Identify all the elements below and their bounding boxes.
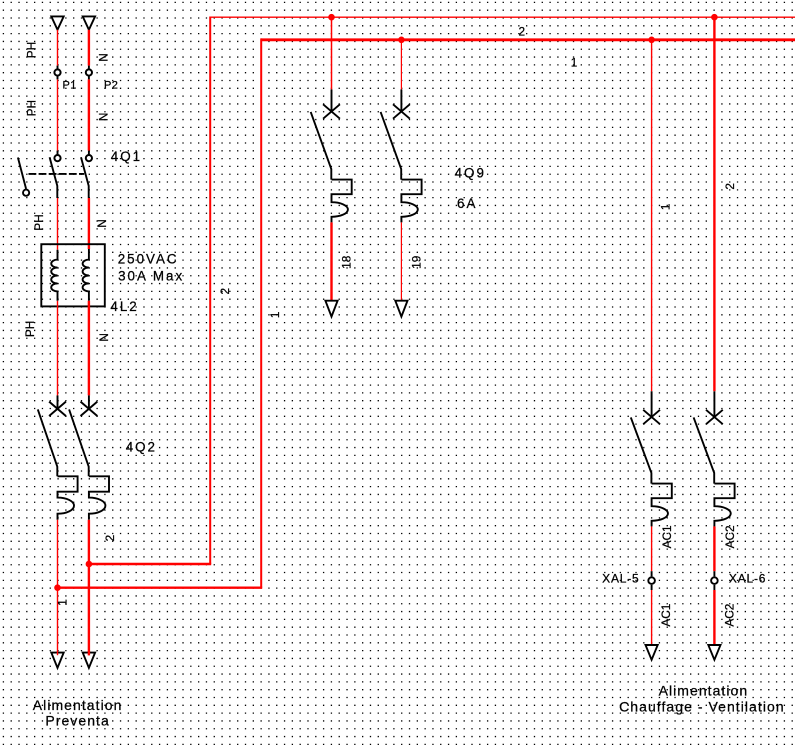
- svg-text:N: N: [97, 333, 111, 342]
- 4Q2 pole 1 thermal element: [58, 476, 78, 520]
- breaker pole 2 X contact: [706, 410, 723, 424]
- svg-text:AC1: AC1: [659, 604, 673, 627]
- breaker pole 2 top stub: [713, 391, 715, 417]
- 4Q1 pole 2 contact circle: [86, 155, 92, 161]
- svg-text:PH: PH: [23, 321, 37, 337]
- breaker pole 1 top stub: [651, 391, 653, 417]
- wire AC2 lower: [713, 590, 715, 645]
- svg-text:4Q9: 4Q9: [455, 166, 486, 181]
- junction 4Q9 pole 1 on bus 2: [328, 14, 335, 21]
- svg-text:Preventa: Preventa: [45, 713, 109, 729]
- svg-text:N: N: [97, 113, 111, 122]
- wire 4Q9 pole 1 input: [331, 17, 333, 89]
- wire net 2 left vertical drop: [209, 17, 211, 565]
- terminal arrow top N: [83, 16, 95, 29]
- 4Q1 pole 2 stub: [88, 151, 90, 156]
- wire 4Q2 pole 2 output: [88, 520, 90, 564]
- 4Q1 pole 2 blade: [81, 157, 89, 198]
- 4Q9 pole 2 thermal element: [401, 180, 421, 223]
- terminal XAL-6: [713, 571, 715, 576]
- svg-text:4Q2: 4Q2: [126, 440, 157, 455]
- 4Q9 pole 1 thermal element: [332, 180, 352, 223]
- 4Q2 pole 1 blade: [38, 409, 58, 476]
- 4Q9 pole 2 top stub: [400, 89, 402, 111]
- terminal arrow wire 18: [325, 301, 337, 317]
- svg-text:1: 1: [658, 204, 672, 211]
- svg-text:PH: PH: [32, 214, 46, 230]
- breaker pole 1 thermal element: [652, 484, 672, 527]
- junction AC breaker pole 1 on bus 1: [648, 37, 655, 44]
- svg-text:Chauffage - Ventilation: Chauffage - Ventilation: [619, 699, 785, 715]
- svg-text:4L2: 4L2: [110, 299, 138, 314]
- 4Q2 pole 2 top stub: [88, 395, 90, 408]
- wire PH upper: [57, 30, 59, 66]
- 4Q1 pole 1 stub: [57, 151, 59, 156]
- wire PH to transformer: [57, 198, 59, 250]
- 4L2 secondary winding: [83, 249, 89, 301]
- svg-text:1: 1: [571, 56, 578, 70]
- wire PH overshoot into arrow: [57, 651, 59, 655]
- wire AC2 upper: [713, 526, 715, 571]
- 4Q2 pole 1 X contact: [49, 402, 66, 416]
- 4Q1 linkage dashed line: [29, 173, 85, 175]
- transformer 4L2: [41, 244, 184, 314]
- wire N below transformer: [88, 301, 90, 396]
- wire 4Q2 pole 1 output: [57, 520, 59, 652]
- wire PH middle: [57, 79, 59, 150]
- breaker pole 2 blade: [694, 417, 715, 483]
- breaker pole 2 thermal element: [714, 484, 734, 527]
- svg-text:P2: P2: [104, 79, 118, 91]
- 4Q2 pole 2 X contact: [81, 402, 98, 416]
- circuit breaker chauffage pole 2: [694, 391, 735, 526]
- wire net 2 to AC breaker: [713, 17, 715, 391]
- terminal arrow top PH: [51, 16, 63, 29]
- junction AC breaker pole 2 on bus 2: [711, 14, 718, 21]
- wire net 1 left vertical drop: [260, 38, 262, 587]
- wire AC1 lower: [651, 590, 653, 645]
- 4Q1 pole 1 blade: [50, 157, 58, 198]
- terminal XAL-5: [651, 571, 653, 576]
- terminal arrow bottom N: [83, 653, 95, 668]
- svg-text:19: 19: [409, 256, 423, 269]
- wire 19: [400, 222, 402, 300]
- circuit breaker chauffage pole 1: [631, 391, 672, 526]
- wire N upper: [88, 30, 90, 66]
- svg-text:30A Max: 30A Max: [118, 269, 184, 284]
- 4Q9 pole 1 top stub: [331, 89, 333, 111]
- 4Q1 pole 1 contact circle: [54, 155, 60, 161]
- svg-text:PH: PH: [24, 100, 38, 116]
- wire 18: [330, 222, 332, 300]
- terminal arrow bottom PH: [51, 653, 63, 668]
- wire bus 1 (second horizontal, net 1): [261, 38, 795, 41]
- wire bus 2 (top horizontal, net 2): [210, 16, 795, 18]
- svg-text:1: 1: [56, 599, 70, 606]
- circuit breaker 4Q2: [38, 395, 157, 519]
- svg-text:2: 2: [103, 535, 117, 542]
- svg-text:Alimentation: Alimentation: [33, 697, 123, 713]
- wire 4Q9 pole 2 input: [400, 40, 402, 90]
- 4L2 primary winding: [51, 250, 57, 301]
- svg-text:XAL-5: XAL-5: [602, 571, 639, 585]
- wire net 2 horizontal to 4Q2 output: [89, 563, 211, 565]
- 4Q9 pole 2 blade: [381, 112, 402, 180]
- 4L2 box: [41, 244, 105, 306]
- svg-text:XAL-6: XAL-6: [729, 571, 766, 585]
- circuit breaker 4Q9: [311, 89, 486, 222]
- svg-text:AC2: AC2: [722, 604, 736, 627]
- svg-text:N: N: [97, 53, 111, 62]
- wire net 1 horizontal to 4Q2 output: [58, 587, 263, 589]
- 4Q2 pole 2 blade: [69, 409, 89, 476]
- junction 4Q9 pole 2 on bus 1: [398, 37, 405, 44]
- disconnect switch 4Q1: [18, 149, 142, 198]
- wire AC1 upper: [651, 526, 653, 571]
- wire net 2 below junction: [88, 564, 90, 652]
- 4Q2 pole 2 thermal element: [89, 476, 109, 520]
- svg-text:250VAC: 250VAC: [118, 251, 179, 266]
- breaker pole 1 blade: [631, 417, 652, 483]
- svg-text:1: 1: [268, 312, 282, 319]
- svg-text:Alimentation: Alimentation: [659, 683, 749, 699]
- 4Q9 pole 2 X contact: [393, 104, 410, 118]
- svg-text:4Q1: 4Q1: [111, 149, 142, 164]
- wire N overshoot into arrow: [88, 651, 90, 655]
- terminal arrow AC1: [646, 645, 658, 660]
- 4Q2 pole 1 top stub: [57, 395, 59, 408]
- svg-text:AC1: AC1: [660, 525, 674, 548]
- svg-text:2: 2: [519, 25, 526, 39]
- terminal P2: [88, 66, 90, 70]
- 4Q1 aux blade: [18, 158, 26, 189]
- terminal P1: [57, 66, 59, 70]
- wire net 1 to AC breaker: [651, 40, 653, 392]
- svg-text:18: 18: [339, 255, 353, 269]
- breaker pole 1 X contact: [643, 410, 660, 424]
- 4Q1 aux circle: [23, 190, 29, 196]
- svg-text:2: 2: [218, 288, 232, 295]
- wire N middle: [88, 79, 90, 150]
- wire N to transformer: [88, 198, 90, 249]
- 4Q9 pole 1 blade: [311, 112, 332, 180]
- 4Q9 pole 1 X contact: [323, 104, 340, 118]
- terminal arrow wire 19: [395, 301, 407, 317]
- junction net 2: [86, 561, 93, 568]
- terminal arrow AC2: [708, 645, 720, 660]
- wire PH below transformer: [57, 301, 59, 396]
- svg-text:2: 2: [723, 183, 737, 190]
- svg-text:PH: PH: [24, 42, 38, 58]
- svg-text:P1: P1: [63, 79, 77, 91]
- junction net 1: [54, 584, 61, 591]
- svg-text:N: N: [95, 219, 109, 228]
- svg-text:6A: 6A: [457, 196, 477, 211]
- svg-text:AC2: AC2: [723, 525, 737, 548]
